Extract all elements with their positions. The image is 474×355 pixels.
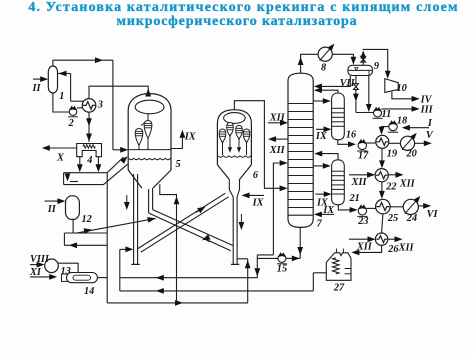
svg-text:7: 7 xyxy=(317,219,323,230)
svg-text:IX: IX xyxy=(184,132,197,143)
vessel 5 lift leg to riser xyxy=(149,188,153,213)
heat exchanger 19 xyxy=(376,135,397,159)
wire vessel1 bottoms to pump 2 xyxy=(53,93,69,112)
pump 11 xyxy=(373,107,392,121)
svg-text:XI: XI xyxy=(29,267,42,278)
wire circulation bottom xyxy=(257,254,273,256)
cyclone in vessel 6 (2) xyxy=(227,123,234,153)
air cooler 20 xyxy=(400,133,416,160)
wire stripper16 vapor to column xyxy=(314,87,338,93)
wire to boiler 27 feed xyxy=(313,273,326,291)
stripper 21 xyxy=(332,160,360,205)
svg-text:22: 22 xyxy=(385,182,396,193)
heat exchanger 25 xyxy=(376,199,399,224)
svg-text:1: 1 xyxy=(59,91,64,102)
stream XII into HX26 xyxy=(349,236,376,252)
wire HX8 to drum 9 xyxy=(332,54,356,65)
vessel 6 reactor shell xyxy=(217,110,259,181)
wire column draw to stripper 21 xyxy=(313,163,331,169)
pump 15 xyxy=(277,252,287,274)
pump 2 xyxy=(68,106,78,130)
gas vent valve above drum 9 xyxy=(360,51,366,66)
blower 13 xyxy=(45,259,71,277)
svg-text:19: 19 xyxy=(387,148,397,159)
slide title xyxy=(0,1,474,29)
wire stripper21 vapor to column xyxy=(314,151,338,160)
svg-text:17: 17 xyxy=(358,151,369,162)
svg-text:XII: XII xyxy=(269,145,286,156)
wire drum 9 right outlet xyxy=(356,76,374,113)
wire vent to compressor 10 xyxy=(363,49,390,78)
air duct below furnace xyxy=(64,156,128,184)
heat exchanger 22 xyxy=(375,169,396,193)
ejector 14 xyxy=(62,273,98,298)
svg-text:X: X xyxy=(56,153,65,164)
svg-text:24: 24 xyxy=(406,213,417,224)
air cooler 8 xyxy=(318,44,334,74)
furnace 4 xyxy=(77,144,102,167)
wire HX25 to HX26 xyxy=(382,214,383,233)
wire HX26 to boiler 27 xyxy=(351,245,381,255)
wire circulation into column xyxy=(273,160,287,255)
wire 16 bottoms to pump 17 xyxy=(338,140,356,147)
wire ejector to main vertical xyxy=(97,277,107,279)
vessel 5 cone xyxy=(128,170,171,188)
wire overhead down to reactor block xyxy=(112,60,114,150)
stream IX steam into 21 xyxy=(315,191,331,208)
stream IV out xyxy=(392,92,433,106)
svg-text:XII: XII xyxy=(399,178,416,189)
svg-text:IX: IX xyxy=(316,198,329,209)
wire pump17 to HX19 xyxy=(367,142,377,144)
svg-text:XII: XII xyxy=(351,177,368,188)
vessel 1 (stabilizer column) xyxy=(48,66,64,102)
svg-text:XII: XII xyxy=(269,112,286,123)
svg-text:26: 26 xyxy=(387,244,399,255)
stream IX into vessel 6 xyxy=(242,193,265,209)
svg-text:23: 23 xyxy=(357,216,368,227)
bottom air line xyxy=(107,300,248,306)
vertical main line from duct to bottom xyxy=(106,173,108,303)
stream XII out of HX26 xyxy=(388,236,415,253)
column bottoms outlet xyxy=(297,227,303,258)
svg-text:20: 20 xyxy=(406,149,417,160)
stream VIII into blower xyxy=(30,254,50,268)
wire column draw to stripper 16 xyxy=(313,98,331,104)
wire feed into vessel 5 xyxy=(113,147,128,153)
wire vessel 6 overhead to column 7 xyxy=(234,101,287,192)
svg-text:V: V xyxy=(426,130,434,141)
heat exchanger 26 xyxy=(375,233,399,255)
stream XII out of column xyxy=(268,136,288,156)
recycle riser to channel xyxy=(120,246,134,291)
vessel 5 bed level xyxy=(129,158,171,159)
svg-text:5: 5 xyxy=(176,159,181,170)
stream III out xyxy=(381,104,433,115)
vessel 6 bed level xyxy=(218,156,251,157)
wire pump18 to HX19 xyxy=(379,127,389,135)
stream IX outlet from vessel 5 xyxy=(171,130,197,149)
wire furnace legs xyxy=(77,157,101,173)
wire pump2 to HX3 xyxy=(77,107,84,109)
cyclone in vessel 6 (4) xyxy=(243,129,250,155)
stream II feed arrow into vessel 1 xyxy=(32,76,49,94)
svg-text:21: 21 xyxy=(349,193,360,204)
heat exchanger 3 xyxy=(82,99,103,113)
column 7 fractionator xyxy=(288,73,323,229)
waste heat boiler 27 xyxy=(326,249,351,294)
wire HX3 down to furnace 4 xyxy=(86,112,92,142)
svg-text:15: 15 xyxy=(277,264,287,275)
cyclone in vessel 5 (right) xyxy=(141,114,152,150)
vessel 5 feed distributor xyxy=(128,149,170,151)
stream VII valve line xyxy=(340,76,359,113)
svg-text:9: 9 xyxy=(374,61,379,72)
vessel 6 standpipe xyxy=(231,197,244,264)
wire HX22 to HX25 xyxy=(379,182,385,199)
wire HX19 to AC20 xyxy=(389,142,401,144)
aeration line into standpipe junction xyxy=(76,217,156,234)
svg-text:18: 18 xyxy=(397,116,407,127)
svg-text:II: II xyxy=(32,83,42,94)
mixing channel xyxy=(64,233,107,248)
svg-text:12: 12 xyxy=(82,214,92,225)
wire pump23 to HX25 xyxy=(367,207,376,209)
stream X flue gas out xyxy=(42,145,77,163)
svg-text:IX: IX xyxy=(315,131,328,142)
cyclone in vessel 6 (1) xyxy=(219,129,226,155)
svg-text:8: 8 xyxy=(321,63,326,74)
svg-text:II: II xyxy=(47,204,57,215)
stream I into pump 18 xyxy=(402,118,433,131)
pump 23 xyxy=(357,204,368,227)
svg-text:2: 2 xyxy=(68,118,74,129)
catalyst line 6 to 5 (descending) xyxy=(149,210,234,251)
svg-text:25: 25 xyxy=(387,213,398,224)
vessel 5 regenerator shell xyxy=(128,94,180,170)
stream VI out xyxy=(418,203,438,220)
vessel 12 feed drum xyxy=(66,196,92,225)
column overhead riser xyxy=(298,54,318,73)
svg-text:4: 4 xyxy=(86,155,92,166)
cyclone in vessel 6 (3) xyxy=(236,126,243,153)
svg-text:27: 27 xyxy=(333,283,345,294)
wire HX19 to HX22 xyxy=(379,148,385,168)
stream XI into ejector 14 xyxy=(29,267,57,280)
wire vessel1 return line xyxy=(58,71,84,102)
wire vessel 12 to mixing channel xyxy=(72,219,74,233)
pump 17 xyxy=(357,139,369,162)
svg-text:VI: VI xyxy=(427,209,439,220)
separator drum 9 xyxy=(348,61,379,76)
compressor 10 xyxy=(385,79,407,94)
vessel 6 cone xyxy=(217,165,251,180)
svg-text:16: 16 xyxy=(346,130,357,141)
svg-text:6: 6 xyxy=(253,170,259,181)
recycle line upper xyxy=(120,275,257,281)
stream XII out of HX22 xyxy=(388,172,415,190)
wire flue gas from vessel5 to HX3 xyxy=(89,86,151,98)
riser into vessel 6 standpipe xyxy=(237,259,251,303)
svg-text:VIII: VIII xyxy=(30,254,50,265)
stream II into vessel 12 xyxy=(45,198,66,215)
stripper 16 xyxy=(332,93,357,141)
svg-text:3: 3 xyxy=(97,100,103,111)
wire reflux drum to column xyxy=(314,76,350,90)
svg-text:10: 10 xyxy=(397,83,407,94)
svg-text:III: III xyxy=(420,104,434,115)
vessel 5 standpipe xyxy=(124,174,140,264)
svg-text:XII: XII xyxy=(398,243,415,254)
catalyst line 5 to 6 (ascending) xyxy=(138,193,229,252)
wire 21 bottoms to pump 23 xyxy=(338,205,357,213)
vessel 6 neck xyxy=(229,180,239,198)
wire bottoms line through pump 15 xyxy=(257,256,300,262)
wire vessel1 overhead xyxy=(53,57,113,66)
svg-text:IX: IX xyxy=(252,198,265,209)
stream IX into column bottom xyxy=(314,205,335,217)
wire HX25 to AC24 xyxy=(390,206,403,208)
stream IX steam into 16 xyxy=(315,126,332,142)
stream V out xyxy=(415,130,434,146)
stream XII into column upper xyxy=(268,112,288,125)
cyclone in vessel 5 (left) xyxy=(135,129,143,151)
air riser into vessel 5 xyxy=(160,184,180,303)
wire blower to ejector xyxy=(58,263,78,272)
stream XII into HX22 xyxy=(349,172,375,188)
svg-text:11: 11 xyxy=(382,109,392,120)
pump 18 xyxy=(388,116,407,133)
svg-text:I: I xyxy=(427,118,433,129)
recycle line lower xyxy=(120,288,313,294)
air cooler 24 xyxy=(403,196,420,224)
svg-text:14: 14 xyxy=(84,286,94,297)
wire slurry down to recycle xyxy=(254,255,260,278)
